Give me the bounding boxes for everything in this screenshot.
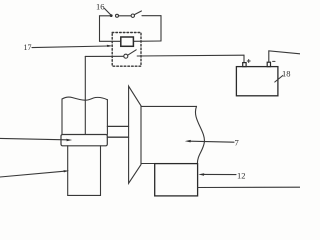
generator cylinder right edge (106, 100, 108, 135)
slip-ring band (61, 135, 107, 146)
relay contact wire left (85, 55, 123, 57)
switch 16 blade (134, 11, 141, 15)
switch 16 terminal dot (110, 14, 113, 17)
svg-text:12: 12 (237, 171, 246, 181)
motor box 7 wavy right edge (195, 106, 204, 164)
battery minus terminal (267, 62, 270, 66)
switch 16 right contact circle (131, 14, 134, 17)
wire down to battery plus (243, 55, 245, 62)
relay contact wire right (137, 54, 244, 57)
generator cylinder left edge (61, 99, 63, 135)
battery plus terminal (243, 63, 246, 67)
plus sign (247, 60, 250, 63)
relay contact blade (128, 50, 137, 55)
pedestal box (68, 146, 101, 196)
generator cylinder wavy top (62, 97, 107, 100)
wire top left (100, 15, 111, 17)
wire loop left vertical (99, 16, 101, 42)
svg-text:7: 7 (235, 138, 239, 148)
relay dashed box (112, 33, 141, 67)
wire coil right (134, 40, 161, 42)
shaft bottom line (107, 136, 128, 138)
battery box 18 (236, 67, 278, 96)
wire loop right vertical (160, 16, 162, 41)
motor box 7 bottom (141, 163, 155, 165)
starter box 12 (155, 164, 198, 196)
svg-text:17: 17 (24, 43, 32, 52)
switch 16 left contact circle (116, 14, 119, 17)
svg-text:16: 16 (96, 2, 105, 12)
wire down to generator (84, 56, 86, 134)
leader line 7 with arrow (190, 141, 234, 142)
shaft top line (107, 125, 128, 127)
leader line 12 with arrow (203, 173, 236, 175)
leader line B with arrow (0, 171, 65, 177)
long wire bottom right (198, 186, 300, 188)
motor box 7 top (141, 105, 197, 107)
flywheel cone (129, 86, 141, 183)
svg-text:18: 18 (282, 69, 291, 79)
minus sign (273, 60, 275, 62)
wire coil left (100, 40, 121, 42)
leader line 17 with arrow (32, 46, 108, 48)
leader line A with arrow (0, 138, 66, 139)
wire battery minus up and right (269, 51, 300, 62)
leader line 18 (275, 76, 283, 83)
switch 16 middle wire (119, 15, 131, 17)
relay coil box (121, 37, 134, 46)
wire top right (142, 15, 161, 17)
relay contact circle (124, 54, 128, 58)
leader line 16 (105, 9, 111, 15)
